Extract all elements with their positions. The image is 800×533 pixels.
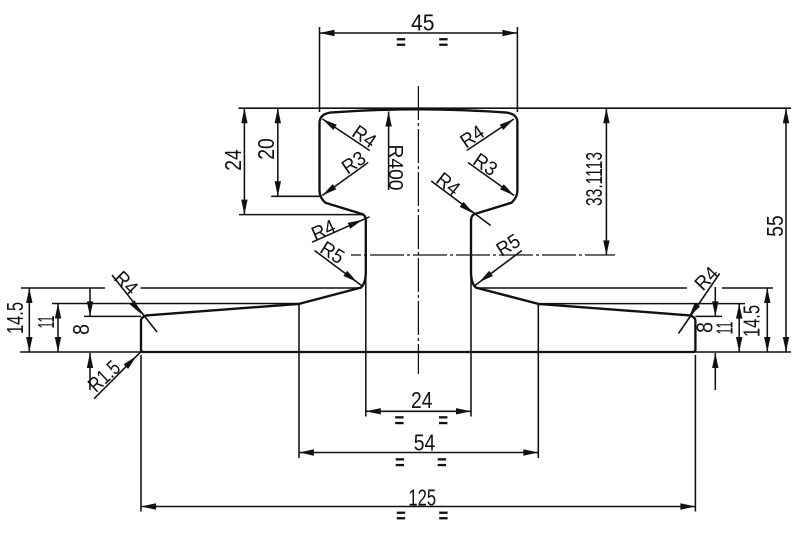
horizontal axis centerline (351, 254, 615, 256)
extension line 8 level right (695, 315, 722, 317)
svg-text:45: 45 (411, 10, 435, 36)
leader R4 foot left (109, 267, 157, 332)
svg-text:8: 8 (68, 324, 94, 335)
extension line 14.5 level left (21, 287, 361, 289)
extension line 45 right (516, 27, 518, 112)
extension line web width right (470, 272, 472, 417)
leader R400 crown radius (384, 112, 406, 191)
leader R3 left (322, 147, 370, 195)
leader R4 foot right (679, 263, 724, 334)
leader R3 right (468, 149, 514, 195)
extension line 11 level left (52, 303, 299, 305)
extension line web width left (365, 272, 367, 417)
extension line 8 level left (84, 315, 141, 317)
extension line 54 left (298, 304, 300, 458)
extension line head top level (239, 107, 792, 109)
leader R4 waist right (431, 169, 491, 226)
dimension 14.5 right (739, 288, 771, 352)
svg-text:20: 20 (253, 138, 279, 160)
extension line 24 head level (waist) (239, 214, 363, 216)
svg-text:R400: R400 (384, 145, 406, 191)
dimension 125 foot width (141, 484, 695, 519)
leader R1.5 bottom corner (84, 351, 141, 398)
leader R5 right (475, 230, 525, 285)
svg-text:33.1113: 33.1113 (581, 152, 607, 206)
extension line 125 left (140, 355, 142, 512)
dimension 14.5 left (2, 288, 33, 352)
svg-text:11: 11 (712, 322, 738, 335)
dimension 20 (253, 108, 281, 196)
extension line 14.5 level right (476, 287, 773, 289)
extension line 11 level right (538, 303, 745, 305)
dimension 24 web width (366, 387, 471, 424)
dimension 55 rail height (762, 108, 789, 352)
rail profile outline (crane rail cross-section) (141, 109, 695, 352)
leader R4 waist left (308, 216, 369, 246)
dimension 24 head depth (220, 108, 248, 214)
svg-text:24: 24 (220, 149, 246, 171)
dimension 11 right (712, 304, 743, 352)
extension line 20 level (271, 195, 319, 197)
svg-text:14.5: 14.5 (2, 302, 28, 334)
svg-text:55: 55 (762, 215, 788, 237)
svg-text:54: 54 (414, 430, 436, 456)
dimension 8 right (692, 287, 719, 390)
dimension 8 left (68, 288, 94, 390)
leader R4 head top-left (323, 119, 380, 153)
dimension 45 head width (320, 10, 518, 46)
svg-text:14.5: 14.5 (739, 305, 765, 337)
dimension 33.1113 (to neutral axis) (581, 108, 610, 255)
extension line 45 left (319, 27, 321, 112)
dimension 54 (299, 430, 538, 466)
vertical centerline (417, 86, 419, 374)
extension line rail bottom baseline (20, 351, 791, 353)
svg-text:125: 125 (408, 484, 436, 510)
leader R4 head top-right (457, 119, 514, 153)
dimension 11 left (33, 304, 61, 353)
svg-text:11: 11 (33, 316, 59, 329)
extension line 125 right (694, 355, 696, 512)
leader R5 left (315, 238, 362, 286)
extension line 54 right (537, 304, 539, 458)
svg-text:24: 24 (411, 387, 433, 413)
